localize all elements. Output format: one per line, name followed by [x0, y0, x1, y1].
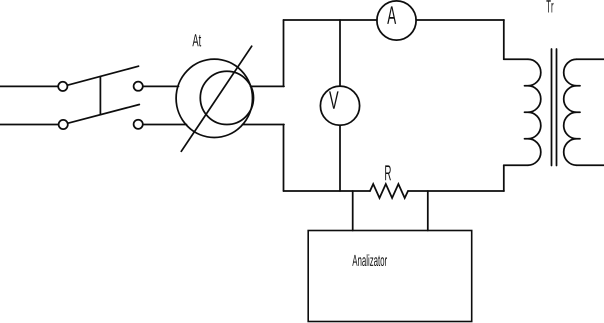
wire top rail right	[416, 19, 504, 21]
label V (voltmeter)	[329, 91, 339, 108]
wire switch to variac top	[143, 85, 179, 87]
transformer Tr secondary cusp ticks	[577, 86, 581, 139]
switch S1 left contact top	[58, 82, 67, 91]
resistor R zigzag	[370, 184, 408, 198]
label A (ammeter)	[387, 6, 396, 23]
wire right vertical lower	[503, 165, 505, 191]
wire analyzer drop left	[352, 191, 354, 231]
autotransformer At adjustment arrow	[181, 46, 251, 151]
wire analyzer drop right	[427, 191, 429, 231]
wire left vertical upper	[283, 20, 285, 86]
autotransformer At inner circle	[200, 71, 253, 124]
switch S1 blade bottom	[68, 105, 139, 124]
wire top rail left	[284, 19, 378, 21]
switch S1 right contact top	[134, 82, 143, 91]
switch S1 gang link	[99, 77, 101, 115]
wire variac to node bottom	[243, 124, 285, 126]
label At (autotransformer)	[192, 34, 201, 46]
voltmeter V circle	[320, 86, 359, 125]
wire bottom rail right	[408, 190, 504, 192]
label Analizator	[352, 254, 387, 266]
label Tr (transformer)	[546, 0, 553, 12]
transformer Tr secondary top lead	[577, 58, 604, 60]
transformer Tr primary top lead	[504, 58, 528, 60]
wire voltmeter drop upper	[339, 20, 341, 86]
wire mains input bottom	[0, 124, 59, 126]
autotransformer At outer circle	[176, 59, 252, 137]
transformer Tr core line left	[551, 49, 553, 166]
wire bottom rail left	[284, 190, 371, 192]
wire variac to node top	[251, 85, 285, 87]
transformer Tr secondary winding	[564, 59, 577, 165]
wire switch to variac bottom	[143, 124, 187, 126]
wire right vertical upper	[503, 20, 505, 59]
switch S1 left contact bottom	[59, 120, 68, 129]
switch S1 blade top	[68, 66, 139, 85]
wire left vertical lower	[283, 125, 285, 192]
transformer Tr primary bottom lead	[504, 164, 528, 166]
ammeter A circle	[377, 1, 416, 40]
wire mains input top	[0, 85, 58, 87]
transformer Tr primary winding	[528, 59, 541, 165]
switch S1 right contact bottom	[134, 120, 143, 129]
transformer Tr core line right	[556, 49, 558, 166]
transformer Tr primary cusp ticks	[525, 86, 529, 139]
wire voltmeter drop lower	[339, 125, 341, 191]
label R (resistor)	[385, 165, 391, 180]
analyzer box	[308, 231, 472, 322]
transformer Tr secondary bottom lead	[577, 164, 604, 166]
